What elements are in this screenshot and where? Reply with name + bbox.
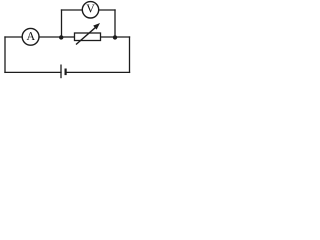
wire: voltmeter top-left horizontal <box>62 9 83 11</box>
wire: left junction to rheostat box <box>61 36 75 38</box>
wire: right vertical rail <box>129 37 131 72</box>
rheostat arrow <box>76 23 100 45</box>
rheostat R (variable resistor box) <box>75 33 101 41</box>
wire: ammeter to left junction <box>39 36 61 38</box>
wire: voltmeter left vertical branch <box>61 10 63 38</box>
wire: rheostat box to right junction <box>101 36 116 38</box>
wire: voltmeter top-right horizontal <box>99 9 115 11</box>
wire: middle left segment from left rail to ammeter <box>5 36 22 38</box>
wire: bottom left segment to battery <box>5 71 61 73</box>
wire: battery to bottom right corner <box>66 71 130 73</box>
node: right junction dot <box>113 35 117 39</box>
wire: right junction to right rail <box>115 36 130 38</box>
ammeter A <box>22 28 39 45</box>
wire: voltmeter right vertical branch <box>114 10 116 38</box>
battery cell: short thick negative plate <box>64 69 66 76</box>
battery cell: long positive plate <box>60 65 62 79</box>
wire: left vertical rail <box>4 37 6 72</box>
voltmeter V <box>82 2 98 18</box>
node: left junction dot <box>59 35 63 39</box>
